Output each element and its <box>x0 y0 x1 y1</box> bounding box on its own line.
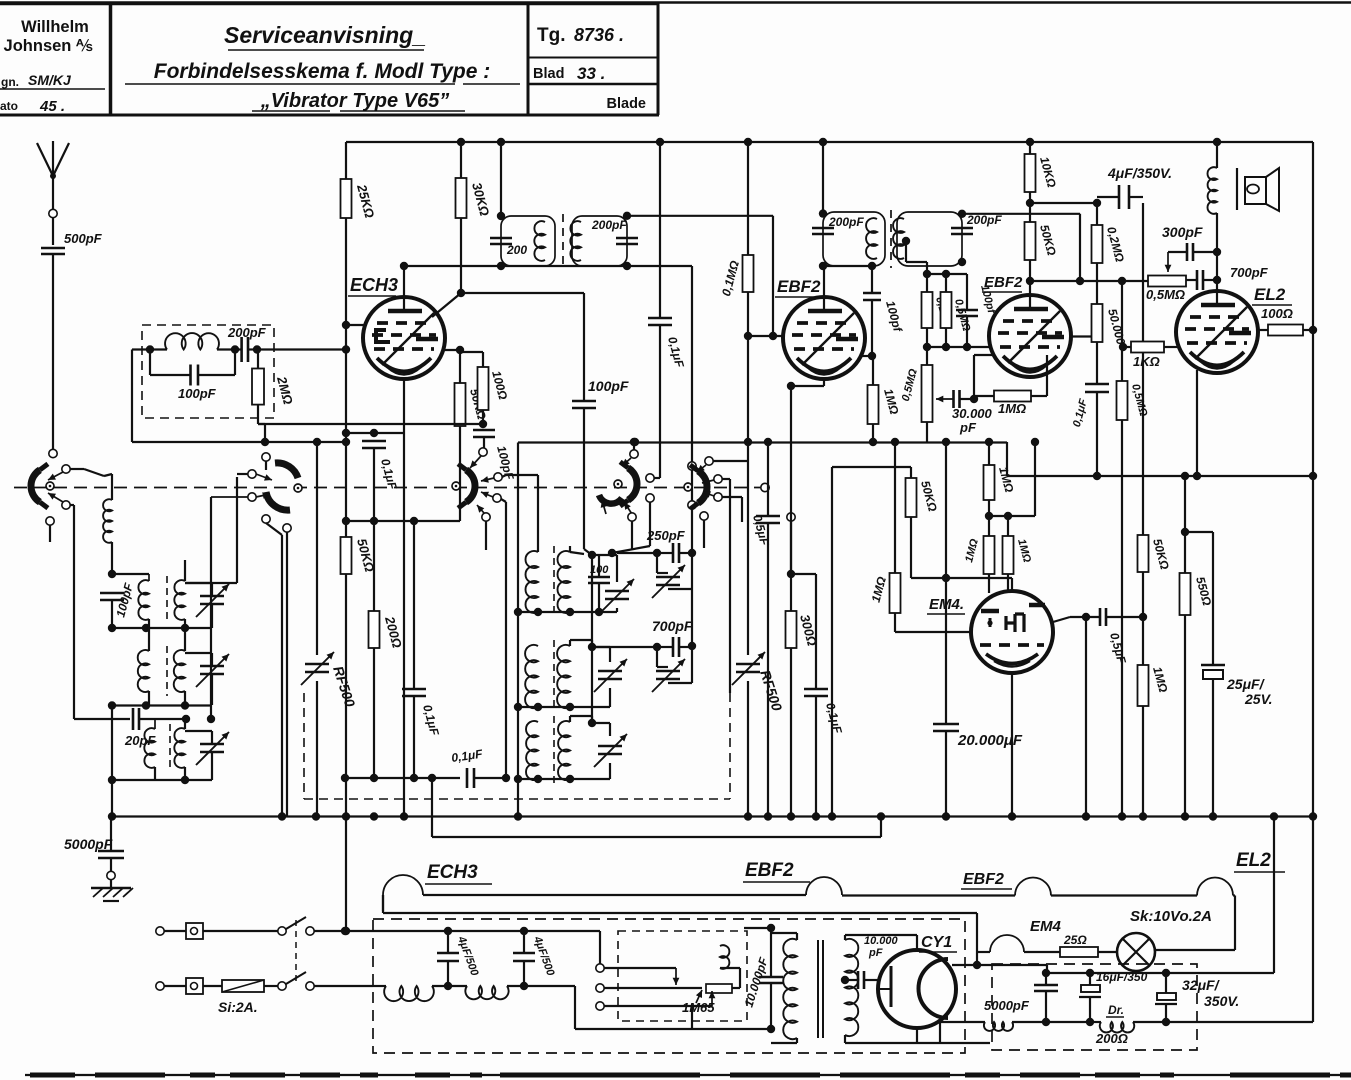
scan artifact strip <box>25 1074 1351 1076</box>
T3 osc secondary <box>558 721 570 780</box>
top HT bus <box>346 141 1313 143</box>
heater chain to CY1 <box>976 952 978 965</box>
svg-text:200pF: 200pF <box>591 218 627 232</box>
wire trap out right <box>257 348 346 350</box>
svg-text:200: 200 <box>506 243 527 257</box>
IFT2 primary coil <box>866 218 877 259</box>
wire x584 down with 100pF <box>583 293 585 401</box>
svg-text:EBF2: EBF2 <box>963 871 1004 888</box>
heater bump EM4 <box>977 951 990 953</box>
wire x1143 upper <box>1142 203 1144 342</box>
capacitor 20pF line <box>74 718 130 720</box>
choke Dr 200 <box>1090 1021 1101 1023</box>
terminal above S1 <box>49 449 57 457</box>
wire y778 <box>345 777 460 779</box>
tube EBF2 second <box>989 295 1071 377</box>
ant coil rail to bus <box>111 706 113 817</box>
svg-text:0,5MΩ: 0,5MΩ <box>1146 287 1185 302</box>
svg-text:200pF: 200pF <box>227 325 267 340</box>
resistor 10K <box>1029 142 1031 154</box>
svg-text:pF: pF <box>959 420 977 435</box>
resistor 25K in left rail <box>341 179 352 218</box>
vibrator contact wire 1 <box>604 967 676 969</box>
plug 1 <box>186 923 203 939</box>
switch blade 2 <box>278 982 286 990</box>
S3 terminal bottom <box>482 513 490 521</box>
resistor 0,2M <box>1092 225 1103 263</box>
heater wire A <box>423 894 806 896</box>
left rail x=346 lower <box>345 574 347 931</box>
capacitor 4uF/500 a <box>447 931 449 953</box>
vibrator coil <box>720 945 729 969</box>
wire cathode2 up <box>973 355 975 399</box>
svg-text:25μF/: 25μF/ <box>1226 676 1266 692</box>
S2 terminal b <box>248 493 256 501</box>
wire trap left down <box>132 348 150 350</box>
capacitor 100pF ant <box>100 592 124 595</box>
tube CY1 <box>878 950 956 1028</box>
AVC line y442 <box>518 441 1007 443</box>
wire em4 grid <box>911 577 1012 579</box>
resistor 300 ohm <box>786 611 797 648</box>
S2 terminal d <box>262 515 270 523</box>
capacitor 30000pF <box>952 390 955 408</box>
wire buffer stub <box>744 927 771 929</box>
capacitor 0,5uF right <box>1099 608 1102 626</box>
svg-text:EBF2: EBF2 <box>777 277 821 296</box>
svg-text:EBF2: EBF2 <box>745 860 794 881</box>
page top edge <box>0 1 1351 4</box>
S2 terminal a <box>248 470 256 478</box>
S1 terminal low-right <box>62 501 70 509</box>
wire x692 column <box>691 266 693 646</box>
wire x832 <box>832 466 911 468</box>
S1 terminal bottom <box>46 517 54 525</box>
potentiometer 0,5M <box>1148 276 1186 287</box>
wire y203 <box>1030 202 1097 204</box>
wire y293 right <box>461 292 584 294</box>
T-l3 primary <box>144 728 155 768</box>
capacitor 500pF <box>41 247 65 250</box>
heater wire B <box>842 894 1015 896</box>
wire S1 to ant coil <box>70 468 84 470</box>
bottom earth bus <box>111 815 1313 817</box>
capacitor 0,1uF x816 <box>815 574 817 689</box>
T1 osc primary <box>525 551 538 613</box>
resistor 0,5M right <box>1117 381 1128 420</box>
EM4 right wire <box>1053 617 1070 622</box>
svg-text:EM4: EM4 <box>1030 918 1062 935</box>
IFT2 secondary coil <box>893 218 904 259</box>
wire antenna down <box>52 218 54 245</box>
switch S5 rotor <box>698 471 707 503</box>
lamp Sk 10V 2A <box>1098 951 1117 953</box>
resistor 0,1M pair a <box>927 273 946 275</box>
IFT1 primary box <box>501 216 555 266</box>
svg-text:EL2: EL2 <box>1254 285 1286 304</box>
T-l3 secondary <box>174 728 185 768</box>
svg-text:33 .: 33 . <box>577 64 605 83</box>
wire y583 S2 feed <box>185 582 237 584</box>
T-l1 bottom line <box>112 627 212 629</box>
capacitor 100pF trap <box>149 350 151 376</box>
svg-text:ECH3: ECH3 <box>350 275 398 295</box>
coupling 100pF ebf2 <box>823 265 872 267</box>
left rail x=346 upper <box>345 142 347 537</box>
svg-text:700pF: 700pF <box>1230 265 1269 280</box>
gang dashed line <box>14 487 766 489</box>
svg-text:350V.: 350V. <box>1204 993 1239 1009</box>
S1 terminal up-right <box>62 465 70 473</box>
svg-text:1MΩ: 1MΩ <box>998 401 1026 416</box>
svg-text:300pF: 300pF <box>1162 224 1203 240</box>
CY1 bottom wire <box>916 1028 918 1043</box>
resistor 550 <box>1184 476 1186 573</box>
dashed gang link left <box>303 693 305 799</box>
svg-text:200pF: 200pF <box>966 213 1002 227</box>
EL2 top wire <box>1216 252 1218 307</box>
T1 osc core <box>553 546 555 618</box>
T2 trimmer <box>598 670 622 673</box>
terminal S5 right <box>761 483 769 491</box>
electrolytic 25uF <box>1185 531 1213 533</box>
vibrator terminal 1 <box>596 964 604 972</box>
T-l1 trimmer <box>200 595 224 598</box>
resistor 25 ohm <box>1060 947 1098 957</box>
wire to vibr connector <box>599 931 601 968</box>
resistor 1M em4 b <box>1007 516 1009 536</box>
wire switch1 to vibr <box>314 930 600 932</box>
capacitor 0,5uF x768 <box>767 442 769 516</box>
choke 2 <box>465 986 508 999</box>
IFT2 sec top wire <box>962 213 1080 215</box>
second earth bus <box>431 778 433 837</box>
tube EM4 <box>971 591 1053 673</box>
T2 osc secondary <box>557 645 570 708</box>
wire y521 <box>346 520 460 522</box>
antenna terminal <box>49 209 57 217</box>
switch S1 rotor <box>31 470 40 502</box>
IFT2 secondary box <box>897 212 962 266</box>
EM4 cathode <box>1011 673 1013 817</box>
svg-text:250pF: 250pF <box>646 528 686 543</box>
resistor 50000 <box>1092 304 1103 342</box>
wire x592 osc feeds <box>591 555 593 647</box>
wire S5 to x791 <box>790 521 792 574</box>
heater wire C <box>1051 894 1197 896</box>
S4 terminal top <box>630 450 638 458</box>
resistor 50K em4 <box>910 467 912 478</box>
ECH3 anode junction <box>457 289 465 297</box>
coupling cap 100pF to S3 <box>473 429 495 432</box>
dashed gang link right <box>729 693 731 799</box>
S5 terminal left <box>705 457 713 465</box>
wire bus to IFT1 <box>500 142 502 216</box>
right HT rail <box>1312 142 1314 1022</box>
IFT1 secondary coil <box>570 221 581 261</box>
T-l2 primary <box>138 650 149 692</box>
T3 osc primary <box>526 721 538 780</box>
svg-text:Blade: Blade <box>607 96 647 112</box>
svg-text:500pF: 500pF <box>64 231 103 246</box>
T1 top leads <box>570 552 584 554</box>
terminal x692b <box>688 501 696 509</box>
IFT1 core <box>562 214 564 268</box>
trimmer RF500 left <box>305 663 329 666</box>
svg-text:Forbindelsesskema f. Modl Type: Forbindelsesskema f. Modl Type : <box>154 60 490 83</box>
resistor 100 ohm EL2 <box>1258 329 1268 331</box>
wire y215 to EBF2 <box>627 215 773 217</box>
resistor 50K ech3 <box>459 350 461 383</box>
wire conn bottom <box>574 986 576 1029</box>
S2 terminal e <box>283 524 291 532</box>
capacitor 300pF <box>1213 248 1221 256</box>
filter line bottom <box>940 1021 985 1023</box>
T2 bottom <box>518 706 610 708</box>
wire x1143 mid <box>1142 352 1144 535</box>
wire x404 bus <box>403 433 405 817</box>
ECH3 left wire <box>342 321 350 329</box>
antenna coil <box>103 499 112 543</box>
svg-text:100pF: 100pF <box>588 378 629 394</box>
capacitor 700pF <box>653 643 661 651</box>
capacitor 0,1uF ech3 <box>362 440 386 443</box>
speaker <box>1236 168 1238 210</box>
transformer primary <box>783 939 797 1039</box>
resistor 0,5M pair b <box>945 274 947 292</box>
svg-text:„Vibrator Type V65”: „Vibrator Type V65” <box>260 90 450 112</box>
resistor 50K in left rail <box>341 537 352 574</box>
capacitor 20000uF <box>945 442 947 724</box>
switch S2 rotor <box>275 463 298 478</box>
capacitor 200pF trap <box>240 337 243 362</box>
S5 terminal bot2 <box>714 493 722 501</box>
switch link dashed <box>295 920 297 982</box>
capacitor 0,1uF x1097 <box>1096 342 1098 384</box>
wire S2a <box>237 473 248 475</box>
capacitor 200pF IFT2 right <box>951 227 973 230</box>
resistor 50K right <box>1138 535 1149 572</box>
heater wire D <box>1233 894 1235 896</box>
capacitor 100pF ebf2b <box>946 273 967 275</box>
filter line top <box>1047 972 1274 974</box>
electrolytic 16uF/350 <box>1089 973 1091 985</box>
capacitor 5000pF ant <box>110 817 112 852</box>
capacitor 200pF IFT1 <box>616 237 638 240</box>
svg-text:Dr.: Dr. <box>1108 1003 1124 1017</box>
heater bump ECH3 <box>382 895 384 911</box>
resistor 1M em4 feed <box>984 465 995 500</box>
svg-text:8736 .: 8736 . <box>574 25 624 45</box>
wire x506 down <box>502 774 510 782</box>
svg-text:45 .: 45 . <box>39 98 65 115</box>
wire y347 grid2 <box>927 346 989 348</box>
wire y516 <box>989 515 1035 517</box>
svg-text:5000pF: 5000pF <box>984 998 1030 1013</box>
wire S1 low to x74 <box>70 504 74 506</box>
line y476 <box>1007 475 1313 477</box>
capacitor 100 osc <box>598 555 600 577</box>
resistor 1M65 <box>706 984 732 993</box>
transformer core <box>817 940 819 1038</box>
resistor 100 ech3 <box>482 352 484 367</box>
heater bump EBF2b <box>1015 878 1051 896</box>
T-l1 secondary <box>174 580 185 620</box>
svg-text:EL2: EL2 <box>1236 850 1271 871</box>
trimmer 700pF partner <box>656 670 680 673</box>
capacitor 200 <box>490 237 512 240</box>
svg-text:32μF/: 32μF/ <box>1182 977 1221 993</box>
wave trap dashed box <box>142 325 274 418</box>
S5 terminal bot1 <box>714 475 722 483</box>
fuse Si 2A <box>222 980 264 992</box>
B+ feed to filter <box>952 964 1047 966</box>
svg-text:EM4.: EM4. <box>929 596 964 613</box>
wire x1007 corner <box>1006 442 1008 476</box>
svg-text:Sk:10Vo.2A: Sk:10Vo.2A <box>1130 908 1212 925</box>
T-l2 trimmer <box>200 665 224 668</box>
heater bump EBF2 <box>806 877 842 895</box>
antenna <box>37 143 53 176</box>
EBF2 grid wire <box>748 335 784 337</box>
EBF2 cathode <box>823 379 825 386</box>
S3 terminal right1 <box>494 473 502 481</box>
resistor 1M x895 <box>894 442 896 573</box>
S4 terminal bot <box>646 494 654 502</box>
resistor 0,1M ebf2 <box>747 142 749 255</box>
svg-text:CY1: CY1 <box>921 934 952 951</box>
title block border <box>0 2 659 6</box>
resistor 1M ebf2 <box>872 356 874 385</box>
wire sec to CY1 anode <box>845 934 917 936</box>
svg-text:SM/KJ: SM/KJ <box>28 72 72 88</box>
IFT2 tap wire <box>902 237 910 245</box>
EBF2 top wire <box>823 266 825 313</box>
earth terminal <box>107 871 115 879</box>
resistor 30K <box>460 142 462 178</box>
switch S3 rotor <box>466 470 475 502</box>
power unit dashed box <box>373 919 965 1053</box>
terminal x692a <box>688 462 696 470</box>
mains terminal 1 <box>156 927 164 935</box>
T-l1 core <box>166 576 168 624</box>
choke 1 <box>373 985 386 987</box>
ECH3 cathode down <box>403 379 405 433</box>
osc rail x517 <box>517 443 519 817</box>
svg-text:1KΩ: 1KΩ <box>1133 354 1160 369</box>
svg-text:Tg.: Tg. <box>537 25 566 46</box>
svg-text:30.000: 30.000 <box>952 406 993 421</box>
wire y574 <box>791 573 816 575</box>
IFT1 primary coil <box>534 221 545 261</box>
wire x211 up <box>210 497 212 719</box>
svg-text:Willhelm: Willhelm <box>21 18 89 36</box>
capacitor 4uF 350V <box>1097 196 1118 198</box>
trimmer 250pF partner <box>652 565 685 598</box>
svg-text:Blad: Blad <box>533 66 564 82</box>
resistor 1M em4 a <box>984 536 995 574</box>
capacitor 700pF <box>1186 279 1197 281</box>
IFT1 secondary box <box>572 216 627 266</box>
transformer secondary <box>845 939 858 1036</box>
RF transformer T-l1 primary <box>138 580 149 620</box>
wire S2b <box>211 496 248 498</box>
T2 osc primary <box>525 645 538 708</box>
EBF2b anode wire <box>1071 335 1092 337</box>
svg-text:1M65: 1M65 <box>682 1000 715 1015</box>
EL2 cathode <box>1196 370 1198 476</box>
svg-text:200Ω: 200Ω <box>1095 1031 1128 1046</box>
ground <box>110 880 112 888</box>
resistor 1M horizontal <box>994 391 1031 402</box>
S3 terminal top <box>479 448 487 456</box>
mains terminal 2 <box>156 982 164 990</box>
capacitor 0,1uF x414 <box>413 521 415 689</box>
T1 bottom <box>518 611 617 613</box>
capacitor 5000pF filter <box>1045 973 1047 985</box>
vibrator terminal 3 <box>596 1002 604 1010</box>
svg-text:ECH3: ECH3 <box>427 862 478 883</box>
capacitor 10000pF cy1 <box>845 979 858 981</box>
resistor 200 ohm <box>373 521 375 611</box>
svg-text:25V.: 25V. <box>1244 691 1273 707</box>
EBF2 anode right wire <box>861 355 870 357</box>
IFT2 core <box>890 210 892 268</box>
T-l2 secondary <box>174 650 185 692</box>
S3 terminal right2 <box>493 494 501 502</box>
vibrator reed <box>604 987 702 989</box>
heater wire low <box>382 895 384 913</box>
IFT2 primary box <box>823 212 885 266</box>
T1 osc secondary <box>558 551 571 613</box>
wire y266 grid line <box>404 265 692 267</box>
plug 2 <box>186 978 203 994</box>
T3 trimmer <box>598 745 622 748</box>
wire coil to dot <box>111 542 113 574</box>
T-l3 bottom line <box>112 779 212 781</box>
wire 2M bottom <box>257 405 259 424</box>
wave trap coil <box>146 345 154 353</box>
T-l2 bottom line <box>112 704 212 706</box>
capacitor 0,1uF x660 <box>648 317 672 320</box>
svg-text:200pF: 200pF <box>828 215 864 229</box>
left rail to switch line <box>342 812 350 820</box>
capacitor 200pF IFT2 left <box>812 227 834 230</box>
heater bump EL2 <box>1197 878 1233 896</box>
resistor 0,5M big <box>926 347 928 365</box>
svg-text:100Ω: 100Ω <box>1261 306 1293 321</box>
ECH3 grid top wire <box>403 266 405 313</box>
svg-text:ato: ato <box>0 99 18 113</box>
tube EBF2 first <box>783 297 865 379</box>
svg-text:5000pF: 5000pF <box>64 836 113 852</box>
wire y424 <box>258 423 483 425</box>
T-l3 trimmer <box>200 743 224 746</box>
tube EL2 <box>1176 291 1258 373</box>
resistor 2M <box>257 350 259 369</box>
svg-text:Serviceanvisning_: Serviceanvisning_ <box>224 22 426 48</box>
svg-text:100pF: 100pF <box>178 386 217 401</box>
svg-text:Si:2A.: Si:2A. <box>218 999 258 1015</box>
T2 osc core <box>553 640 555 712</box>
T-l2 core <box>166 646 168 696</box>
T1 trimmer <box>605 590 629 593</box>
switch blade 1 <box>278 927 286 935</box>
svg-text:Johnsen ⅍: Johnsen ⅍ <box>4 37 93 55</box>
wire x660 from bus <box>659 142 661 318</box>
switch S4 rotor <box>628 468 637 500</box>
vibrator contact wire 3 <box>604 1005 712 1007</box>
